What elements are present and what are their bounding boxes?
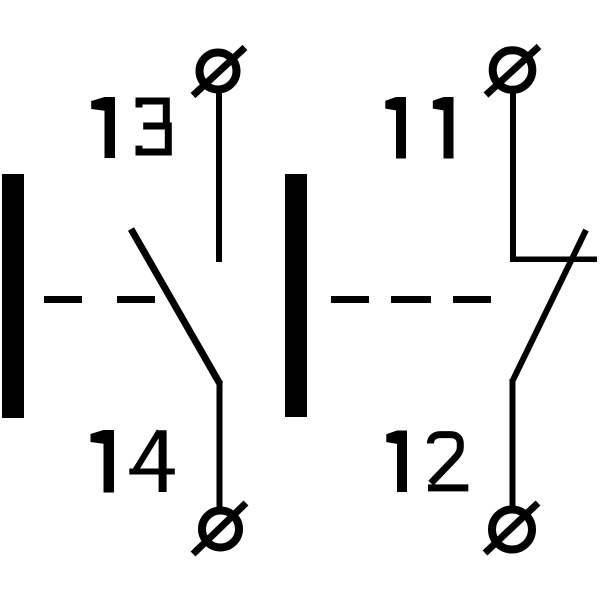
mechanical linkage dashed line (right), dash 3 xyxy=(453,296,491,303)
label 14, digit 4 xyxy=(129,430,175,492)
NC fixed contact horizontal bar xyxy=(510,257,597,263)
label 14, digit 1 xyxy=(91,430,115,493)
wire to terminal 14 xyxy=(217,381,223,509)
label 13, digit 1 xyxy=(91,97,115,158)
wire from terminal 13 down (NO fixed contact) xyxy=(216,90,222,262)
mechanical linkage dashed line (right), dash 2 xyxy=(391,296,431,303)
mechanical linkage dashed line (left), dash 1 xyxy=(44,296,82,303)
NC contact moving arm xyxy=(512,230,586,382)
actuator bar (left) xyxy=(2,174,24,418)
wire from terminal 11 down (NC fixed contact vertical) xyxy=(510,89,516,261)
label 11, digit 1 (second) xyxy=(433,97,454,159)
terminal 14 (circle with slash) xyxy=(193,503,246,554)
label 13, digit 3 xyxy=(139,101,168,152)
mechanical linkage dashed line (left), dash 2 xyxy=(117,296,155,303)
wire to terminal 12 xyxy=(510,379,516,509)
NO contact moving arm xyxy=(131,229,220,384)
terminal 13 (circle with slash) xyxy=(193,48,245,96)
label 12, digit 1 xyxy=(386,431,407,493)
label 11, digit 1 (first) xyxy=(385,97,406,159)
terminal 12 (circle with slash) xyxy=(485,503,538,553)
mechanical linkage dashed line (right), dash 1 xyxy=(331,296,369,303)
label 12, digit 2 xyxy=(428,435,468,488)
actuator bar (middle) xyxy=(285,174,307,417)
terminal 11 (circle with slash) xyxy=(486,47,539,96)
